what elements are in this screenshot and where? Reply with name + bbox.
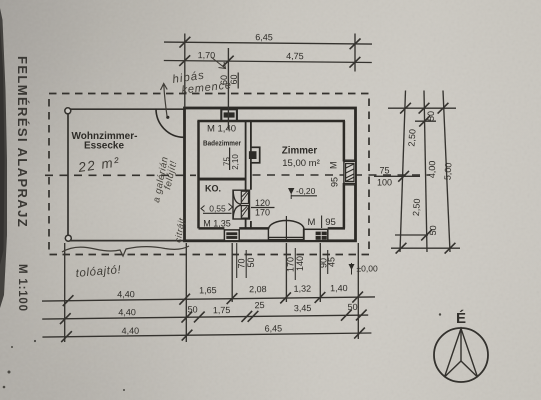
svg-text:4,40: 4,40: [122, 326, 140, 336]
extension: annex left down: [64, 243, 66, 342]
bottom dimension row 1: [42, 297, 375, 301]
ticks bottom row2: [60, 310, 367, 325]
top dimension line 1,70 / 4,75: [164, 61, 372, 63]
handwriting: small arrow to chimney extension: [211, 57, 226, 69]
KO double door: upper swing arc: [233, 191, 241, 205]
svg-text:M 1,40: M 1,40: [207, 124, 236, 135]
svg-text:-0,20: -0,20: [296, 186, 316, 196]
extension line building left top: [184, 34, 186, 108]
fraction bar 120/170: [251, 207, 275, 209]
bottom window 1 (under KO) frame: [224, 230, 239, 241]
partition: Bad/KO divider wall: [199, 178, 247, 181]
inner wall line: top: [197, 120, 345, 123]
extension line chimney: [227, 48, 229, 129]
svg-text:75: 75: [379, 166, 389, 176]
svg-text:170: 170: [285, 257, 295, 272]
KO double door: outline box: [233, 190, 250, 219]
fraction bar door labels: [294, 248, 296, 280]
svg-text:M 1,35: M 1,35: [203, 219, 231, 229]
right dim horizontal ext y121: [415, 120, 436, 122]
svg-text:4,00: 4,00: [427, 161, 437, 179]
right dim vertical line 3: [443, 91, 450, 253]
svg-text:50: 50: [246, 257, 256, 267]
bottom window 2 dark sash: [316, 232, 327, 240]
svg-text:4,40: 4,40: [117, 289, 135, 299]
right dim vertical line 2: [424, 91, 427, 253]
handwriting: wavy brace above toloajto: [62, 246, 189, 256]
svg-text:É: É: [456, 310, 466, 327]
svg-text:1,40: 1,40: [330, 283, 348, 293]
annex door swing arc at building left wall: [156, 109, 184, 138]
ticks bottom row3: [61, 328, 365, 343]
entrance door: left swing arc: [269, 221, 287, 229]
svg-text:2,10: 2,10: [231, 154, 240, 170]
handwriting: arrow up to chimney note: [161, 84, 168, 117]
inner wall line: left: [197, 121, 200, 228]
annex corner circle top-left: [65, 108, 71, 114]
extension: window1 left: [231, 243, 233, 302]
svg-text:50: 50: [348, 302, 358, 312]
svg-text:95: 95: [330, 177, 340, 187]
svg-text:4,40: 4,40: [118, 307, 136, 317]
ticks right dims: [396, 103, 456, 254]
north compass: [434, 310, 488, 382]
svg-text:140: 140: [295, 256, 305, 271]
right dim horizontal ext y176 (75/100 line): [374, 175, 420, 177]
svg-text:0,55: 0,55: [209, 204, 226, 214]
ticks bottom row1: [63, 292, 364, 306]
svg-text:120: 120: [255, 198, 270, 208]
svg-text:1,32: 1,32: [294, 284, 312, 294]
left scan edge dark strip: [0, 8, 7, 308]
bottom dimension row 2: [42, 315, 368, 319]
bottom window 1 dark sash: [226, 232, 237, 239]
extension/fraction bars under window1: [237, 243, 247, 278]
right dim horizontal ext y235: [395, 234, 428, 236]
svg-text:50: 50: [188, 304, 198, 314]
fraction bar window2 labels: [327, 250, 329, 274]
extension: door centre down: [285, 243, 287, 302]
compass needle: [445, 329, 478, 378]
chimney box on top wall: [221, 109, 237, 121]
inner wall line: bottom (gaps for windows and entrance): [199, 227, 346, 230]
rotated labels 60|60 at chimney: [219, 73, 453, 273]
building outer wall rectangle: [185, 108, 356, 241]
entrance door: threshold lines: [268, 228, 304, 240]
extension: building right down: [357, 243, 359, 339]
extension line building right top: [354, 34, 356, 72]
svg-text:3,45: 3,45: [294, 303, 312, 313]
annex corner circle bottom-left: [65, 235, 71, 241]
svg-text:50: 50: [428, 225, 438, 235]
handwriting: hibas kemence note: [62, 57, 232, 280]
KO double door: lower swing arc: [233, 205, 241, 219]
svg-text:6,45: 6,45: [255, 32, 273, 42]
top dimension line 6,45: [164, 42, 372, 44]
extension: building left down: [185, 243, 187, 342]
svg-text:50: 50: [426, 111, 436, 121]
svg-text:1,65: 1,65: [199, 285, 217, 295]
chimney flue filled: [224, 112, 235, 117]
svg-text:100: 100: [377, 178, 392, 188]
svg-text:FELMÉRÉSI ALAPRAJZ: FELMÉRÉSI ALAPRAJZ: [15, 56, 30, 228]
svg-text:25: 25: [254, 300, 264, 310]
right wall window hatched sash: [346, 164, 354, 182]
svg-text:M: M: [308, 217, 316, 228]
entrance door: right swing arc: [286, 221, 304, 229]
svg-text:15,00 m²: 15,00 m²: [282, 158, 320, 169]
svg-text:5,00: 5,00: [443, 162, 454, 180]
svg-text:170: 170: [255, 208, 270, 218]
svg-text:2,50: 2,50: [411, 198, 422, 216]
svg-text:Badezimmer: Badezimmer: [203, 139, 241, 148]
svg-text:M 1:100: M 1:100: [16, 264, 28, 312]
compass circle: [434, 328, 488, 382]
ticks top dims: [179, 37, 360, 68]
svg-text:Zimmer: Zimmer: [282, 146, 318, 157]
dashed boundary rectangle: [49, 94, 369, 255]
svg-text:KO.: KO.: [205, 184, 221, 194]
svg-text:Essecke: Essecke: [84, 141, 124, 152]
svg-text:4,75: 4,75: [286, 51, 304, 61]
svg-text:1,75: 1,75: [213, 305, 231, 315]
svg-text:6,45: 6,45: [265, 323, 283, 333]
annex (Wohnzimmer) thin outline: [68, 109, 186, 240]
svg-text:2,08: 2,08: [249, 284, 267, 294]
svg-text:2,50: 2,50: [406, 129, 417, 147]
svg-text:±0,00: ±0,00: [357, 264, 378, 274]
bottom window 2 (Zimmer) frame: [304, 229, 328, 240]
inner wall line: right (window gap 162-182): [343, 121, 346, 228]
svg-text:95: 95: [325, 217, 336, 228]
svg-text:45: 45: [327, 257, 337, 267]
dashed section line across plan: [45, 174, 430, 176]
svg-text:M: M: [329, 162, 339, 170]
dust specks: [3, 313, 441, 391]
extension: window2 left: [319, 243, 321, 302]
right wall window frame: [344, 160, 356, 185]
level mark -0,20 in Zimmer: [288, 186, 378, 275]
right dim horizontal ext y108: [388, 107, 456, 109]
right dim vertical line 1: [400, 91, 406, 253]
right dim horizontal ext y248: [391, 247, 460, 249]
pier flue black square: [249, 151, 257, 159]
bottom dimension row 3: [42, 333, 371, 337]
KO double door: lower leaf hatched: [241, 206, 248, 219]
partition wall between Bad/KO and Zimmer (double thin lines): [245, 121, 247, 228]
entrance door centre line: [285, 216, 287, 242]
pier bump on Zimmer wall: [251, 147, 260, 163]
KO double door: upper leaf hatched: [241, 191, 248, 203]
